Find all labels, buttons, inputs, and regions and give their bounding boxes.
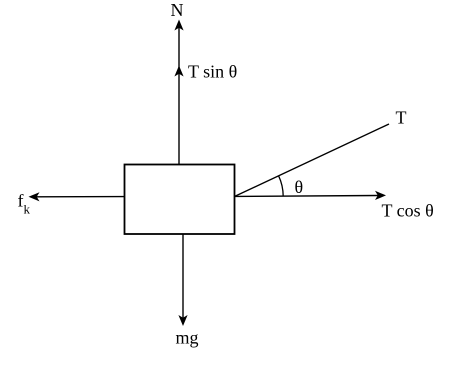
arrowhead f_k (left) [29, 192, 40, 201]
svg-text:T cos θ: T cos θ [382, 201, 434, 221]
wire: horizontal tension component line (right) [235, 195, 378, 198]
angle arc θ [279, 176, 284, 197]
arrowhead T cos θ (right) [375, 191, 386, 200]
tension line T (diagonal) [235, 124, 389, 196]
arrowhead T sin θ (up, mid-line) [174, 66, 183, 77]
svg-text:θ: θ [295, 177, 304, 197]
svg-text:T: T [396, 108, 407, 128]
arrowhead mg (down) [178, 315, 187, 326]
wire: normal force line (up) [178, 27, 180, 164]
svg-text:T sin θ: T sin θ [188, 62, 237, 82]
block (box) [125, 165, 235, 235]
wire: friction line (left) [36, 196, 124, 198]
svg-text:mg: mg [176, 328, 199, 348]
wire: weight line (down) [182, 234, 184, 318]
arrowhead N (up) [174, 20, 183, 31]
svg-text:N: N [171, 0, 184, 20]
